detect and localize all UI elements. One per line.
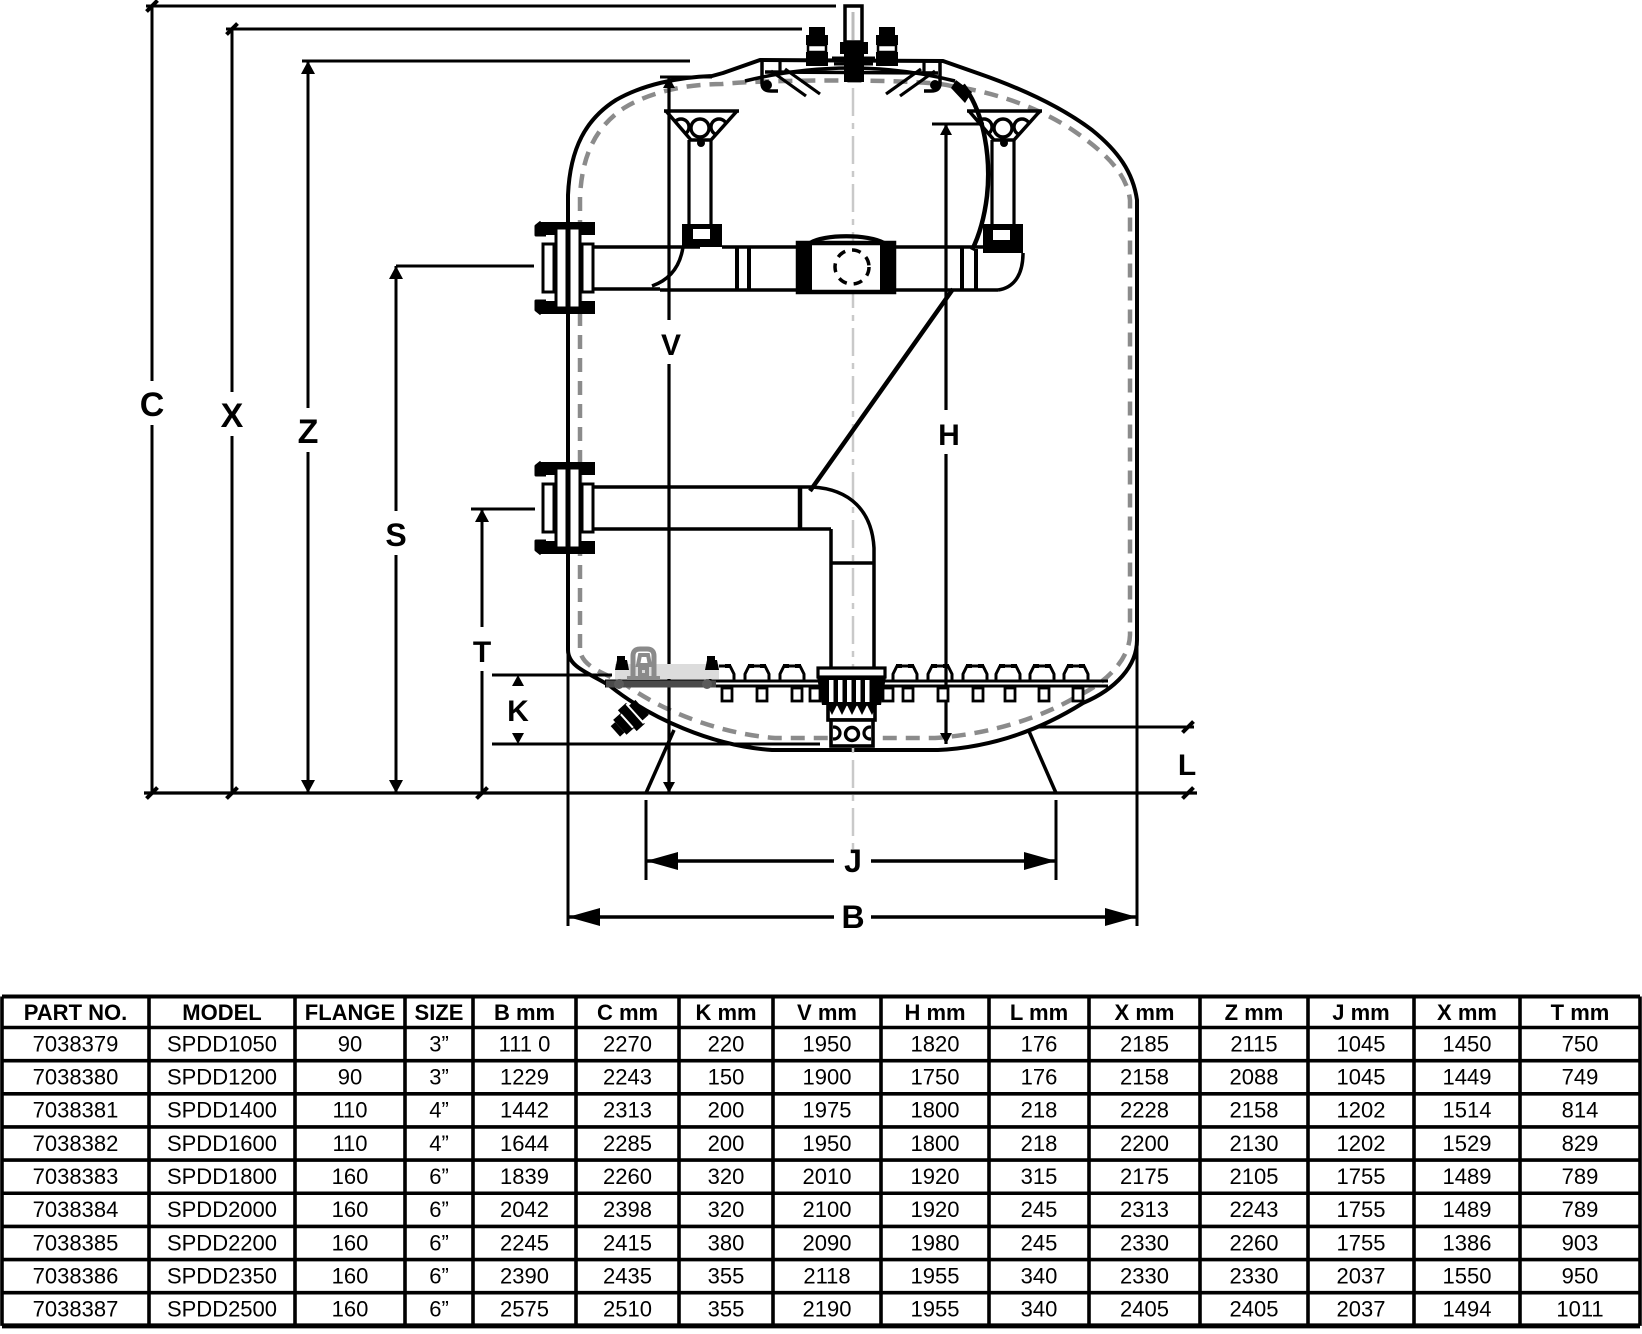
lateral caps [710,664,1088,681]
svg-text:2260: 2260 [1230,1230,1279,1255]
svg-text:7038380: 7038380 [33,1065,119,1090]
svg-text:6”: 6” [429,1230,449,1255]
svg-text:789: 789 [1562,1164,1599,1189]
svg-text:340: 340 [1021,1297,1058,1322]
svg-text:903: 903 [1562,1230,1599,1255]
svg-text:2330: 2330 [1230,1263,1279,1288]
skirt right leg [1028,729,1056,793]
svg-text:1449: 1449 [1443,1065,1492,1090]
svg-text:7038385: 7038385 [33,1230,119,1255]
svg-text:S: S [385,517,406,553]
svg-text:2042: 2042 [500,1197,549,1222]
bottom drain fitting [606,697,651,742]
svg-text:1229: 1229 [500,1065,549,1090]
svg-text:160: 160 [332,1197,369,1222]
dimension B [568,640,1137,935]
dimension Z [298,61,690,793]
table row 7038380 [33,1065,1599,1090]
svg-text:SPDD1800: SPDD1800 [167,1164,277,1189]
svg-text:2575: 2575 [500,1297,549,1322]
svg-text:1202: 1202 [1337,1131,1386,1156]
svg-text:2415: 2415 [603,1230,652,1255]
svg-text:V mm: V mm [797,1000,857,1025]
svg-text:90: 90 [338,1031,362,1056]
svg-text:2200: 2200 [1120,1131,1169,1156]
svg-text:1839: 1839 [500,1164,549,1189]
table row 7038385 [33,1230,1599,1255]
svg-text:1750: 1750 [911,1065,960,1090]
svg-text:1800: 1800 [911,1131,960,1156]
svg-text:1755: 1755 [1337,1164,1386,1189]
svg-text:2115: 2115 [1230,1031,1277,1056]
table header row [24,1000,1610,1025]
svg-text:2390: 2390 [500,1263,549,1288]
svg-text:245: 245 [1021,1230,1058,1255]
top nozzle left [806,27,828,66]
tank shell outline [568,60,1137,750]
svg-text:4”: 4” [429,1131,449,1156]
svg-text:150: 150 [708,1065,745,1090]
svg-text:2330: 2330 [1120,1263,1169,1288]
lateral collector line [605,681,1108,686]
svg-text:315: 315 [1021,1164,1058,1189]
skirt left leg [646,730,674,793]
svg-text:J: J [844,843,862,879]
table row 7038382 [33,1131,1599,1156]
svg-text:1386: 1386 [1443,1230,1492,1255]
top nozzle right [876,27,898,66]
svg-text:2398: 2398 [603,1197,652,1222]
svg-text:3”: 3” [429,1031,449,1056]
svg-text:829: 829 [1562,1131,1599,1156]
svg-text:1955: 1955 [911,1297,960,1322]
svg-text:1920: 1920 [911,1197,960,1222]
svg-text:Z mm: Z mm [1225,1000,1284,1025]
svg-text:2405: 2405 [1230,1297,1279,1322]
svg-text:2510: 2510 [603,1297,652,1322]
svg-text:2313: 2313 [1120,1197,1169,1222]
table row 7038379 [33,1031,1599,1056]
table row 7038383 [33,1164,1599,1189]
svg-text:750: 750 [1562,1031,1599,1056]
svg-text:6”: 6” [429,1263,449,1288]
svg-text:814: 814 [1562,1098,1599,1123]
svg-text:2243: 2243 [603,1065,652,1090]
diffuser bracket left [664,111,739,225]
svg-text:C mm: C mm [597,1000,658,1025]
svg-text:160: 160 [332,1164,369,1189]
svg-text:1820: 1820 [911,1031,960,1056]
upper manifold run [652,247,1023,290]
svg-text:2105: 2105 [1230,1164,1279,1189]
lower pipe run [592,487,874,669]
svg-text:4”: 4” [429,1098,449,1123]
svg-text:2088: 2088 [1230,1065,1279,1090]
diagonal pipe line [810,289,953,491]
svg-text:Z: Z [298,413,319,451]
upper side flange [536,222,595,314]
svg-text:7038379: 7038379 [33,1031,119,1056]
svg-text:1489: 1489 [1443,1197,1492,1222]
svg-text:340: 340 [1021,1263,1058,1288]
svg-text:6”: 6” [429,1164,449,1189]
svg-text:SPDD1050: SPDD1050 [167,1031,277,1056]
dimension L [1038,722,1196,799]
svg-text:SIZE: SIZE [415,1000,464,1025]
svg-text:1450: 1450 [1443,1031,1492,1056]
svg-text:2175: 2175 [1120,1164,1169,1189]
dimension J [646,800,1056,880]
svg-text:SPDD1600: SPDD1600 [167,1131,277,1156]
svg-text:2185: 2185 [1120,1031,1169,1056]
elbow block left [682,224,722,247]
lateral stems [722,688,1083,701]
top vent pipe [832,6,875,82]
dimension V [660,77,712,793]
svg-text:160: 160 [332,1297,369,1322]
svg-text:2158: 2158 [1120,1065,1169,1090]
svg-text:1489: 1489 [1443,1164,1492,1189]
table row 7038386 [33,1263,1599,1288]
svg-text:7038382: 7038382 [33,1131,119,1156]
svg-text:T mm: T mm [1551,1000,1610,1025]
lower side flange [536,462,595,554]
svg-text:K mm: K mm [695,1000,756,1025]
svg-text:T: T [473,636,491,669]
svg-text:SPDD1400: SPDD1400 [167,1098,277,1123]
dimension K [492,675,820,744]
svg-text:950: 950 [1562,1263,1599,1288]
tank inner dashed liner [580,80,1130,738]
svg-text:1950: 1950 [803,1131,852,1156]
svg-text:1529: 1529 [1443,1131,1492,1156]
diffuser bracket right [967,111,1042,225]
svg-text:V: V [661,329,681,362]
table row 7038384 [33,1197,1599,1222]
svg-text:J mm: J mm [1332,1000,1389,1025]
svg-text:380: 380 [708,1230,745,1255]
svg-text:200: 200 [708,1131,745,1156]
air scour strip [606,656,719,689]
svg-text:176: 176 [1021,1031,1058,1056]
svg-text:789: 789 [1562,1197,1599,1222]
svg-text:1755: 1755 [1337,1197,1386,1222]
svg-text:200: 200 [708,1098,745,1123]
svg-text:320: 320 [708,1164,745,1189]
svg-text:H mm: H mm [904,1000,965,1025]
svg-text:1442: 1442 [500,1098,549,1123]
dimension C [140,1,836,799]
svg-text:355: 355 [708,1263,745,1288]
svg-text:2100: 2100 [803,1197,852,1222]
svg-text:218: 218 [1021,1131,1058,1156]
svg-text:749: 749 [1562,1065,1599,1090]
svg-text:160: 160 [332,1263,369,1288]
dimension H [932,124,984,744]
svg-text:2435: 2435 [603,1263,652,1288]
svg-text:2037: 2037 [1337,1263,1386,1288]
svg-text:SPDD2350: SPDD2350 [167,1263,277,1288]
svg-text:90: 90 [338,1065,362,1090]
svg-text:2158: 2158 [1230,1098,1279,1123]
svg-text:1550: 1550 [1443,1263,1492,1288]
svg-text:6”: 6” [429,1197,449,1222]
svg-text:1514: 1514 [1443,1098,1492,1123]
svg-text:SPDD2500: SPDD2500 [167,1297,277,1322]
svg-text:1011: 1011 [1556,1297,1603,1322]
svg-text:SPDD2200: SPDD2200 [167,1230,277,1255]
svg-text:2037: 2037 [1337,1297,1386,1322]
elbow block right [983,224,1023,253]
svg-text:2270: 2270 [603,1031,652,1056]
svg-text:SPDD1200: SPDD1200 [167,1065,277,1090]
svg-text:X mm: X mm [1115,1000,1175,1025]
svg-text:6”: 6” [429,1297,449,1322]
svg-text:355: 355 [708,1297,745,1322]
svg-text:1644: 1644 [500,1131,549,1156]
center hub [817,668,886,746]
svg-text:3”: 3” [429,1065,449,1090]
svg-text:L: L [1178,749,1196,782]
svg-text:MODEL: MODEL [182,1000,261,1025]
svg-text:1980: 1980 [911,1230,960,1255]
svg-text:110: 110 [332,1098,367,1123]
data table grid [2,997,1640,1326]
svg-text:2090: 2090 [803,1230,852,1255]
svg-text:1202: 1202 [1337,1098,1386,1123]
svg-text:B: B [841,899,864,935]
svg-text:1900: 1900 [803,1065,852,1090]
svg-text:2245: 2245 [500,1230,549,1255]
svg-text:SPDD2000: SPDD2000 [167,1197,277,1222]
svg-text:1920: 1920 [911,1164,960,1189]
svg-text:2313: 2313 [603,1098,652,1123]
svg-text:1950: 1950 [803,1031,852,1056]
svg-text:110: 110 [332,1131,367,1156]
svg-text:2130: 2130 [1230,1131,1279,1156]
svg-text:1045: 1045 [1337,1031,1386,1056]
svg-text:160: 160 [332,1230,369,1255]
svg-text:111 0: 111 0 [499,1031,551,1056]
svg-text:1800: 1800 [911,1098,960,1123]
svg-text:1975: 1975 [803,1098,852,1123]
svg-text:7038386: 7038386 [33,1263,119,1288]
svg-text:B mm: B mm [494,1000,555,1025]
air scour valve (gray) [627,649,660,678]
svg-text:245: 245 [1021,1197,1058,1222]
dimension T [471,509,535,799]
svg-text:220: 220 [708,1031,745,1056]
vertical centerline [852,88,855,856]
svg-text:218: 218 [1021,1098,1058,1123]
svg-text:2285: 2285 [603,1131,652,1156]
svg-text:C: C [140,386,165,424]
svg-text:X: X [221,397,244,435]
svg-text:2260: 2260 [603,1164,652,1189]
svg-text:2330: 2330 [1120,1230,1169,1255]
svg-text:1755: 1755 [1337,1230,1386,1255]
svg-text:1494: 1494 [1443,1297,1492,1322]
svg-text:L mm: L mm [1010,1000,1068,1025]
svg-text:K: K [507,695,529,728]
svg-text:X mm: X mm [1437,1000,1497,1025]
svg-text:7038381: 7038381 [33,1098,119,1123]
air hose curve [951,80,988,250]
svg-text:1955: 1955 [911,1263,960,1288]
svg-text:PART NO.: PART NO. [24,1000,127,1025]
svg-text:176: 176 [1021,1065,1058,1090]
manifold couplings [737,247,976,290]
svg-text:2228: 2228 [1120,1098,1169,1123]
dimension X [221,24,802,799]
svg-text:7038384: 7038384 [33,1197,119,1222]
svg-text:2405: 2405 [1120,1297,1169,1322]
svg-text:2190: 2190 [803,1297,852,1322]
svg-text:H: H [938,419,960,452]
table row 7038381 [33,1098,1599,1123]
svg-text:7038387: 7038387 [33,1297,119,1322]
svg-text:2243: 2243 [1230,1197,1279,1222]
svg-text:320: 320 [708,1197,745,1222]
top manway plate [745,62,955,96]
ground base line [144,791,1197,794]
svg-text:FLANGE: FLANGE [305,1000,395,1025]
svg-text:2010: 2010 [803,1164,852,1189]
svg-text:2118: 2118 [803,1263,850,1288]
dimension S [385,266,534,793]
upper pipe from flange [592,247,700,289]
manifold valve [798,236,894,292]
svg-text:1045: 1045 [1337,1065,1386,1090]
table row 7038387 [33,1297,1604,1322]
svg-text:7038383: 7038383 [33,1164,119,1189]
